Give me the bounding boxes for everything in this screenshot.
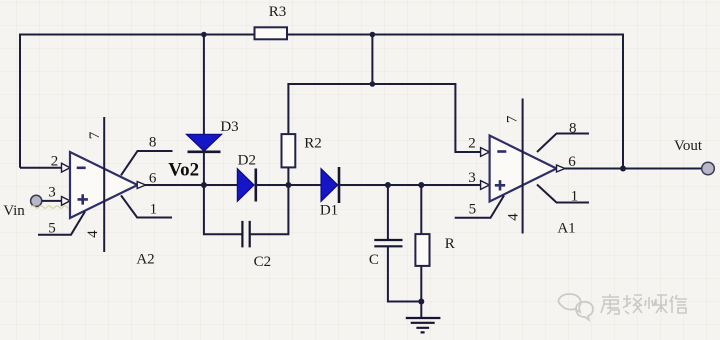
diode D2 — [238, 169, 254, 201]
svg-text:2: 2 — [51, 154, 59, 170]
svg-text:A1: A1 — [557, 221, 575, 237]
svg-text:Vin: Vin — [3, 203, 25, 219]
svg-text:4: 4 — [505, 213, 521, 221]
op-amp A1 power line pins 7/4 — [522, 99, 524, 234]
op-amp A1 triangle — [490, 136, 557, 202]
wire mid net horizontal (R2 top to A1 pin2 corner) — [288, 84, 480, 152]
watermark text 房叔快修 — [601, 294, 687, 314]
resistor R — [415, 234, 429, 266]
resistor R bottom lead — [420, 266, 422, 302]
op-amp A1 pin 5 stub — [455, 196, 504, 218]
svg-text:2: 2 — [468, 136, 476, 152]
terminal Vin — [31, 195, 42, 206]
diode D3 cathode bar — [188, 151, 221, 154]
wire D3 anode from top net — [203, 35, 205, 135]
op-amp A2 triangle — [70, 152, 138, 218]
capacitor C2 plates — [242, 221, 249, 248]
op-amp A2 plus sign — [78, 194, 88, 204]
op-amp A2 pin 8 stub — [121, 151, 173, 175]
node junction dot top wire / D3 branch — [201, 32, 207, 38]
svg-text:5: 5 — [469, 202, 477, 218]
resistor R2 — [282, 134, 296, 167]
svg-text:C: C — [369, 252, 379, 268]
wire A1 output to Vout — [564, 168, 702, 170]
svg-text:R: R — [445, 236, 455, 252]
capacitor C top lead — [387, 185, 389, 240]
pin arrow A2 output pin 6 — [137, 182, 145, 189]
svg-text:D1: D1 — [320, 203, 338, 219]
resistor R3 — [255, 27, 288, 39]
svg-text:A2: A2 — [136, 252, 154, 268]
node junction dot ground — [418, 299, 424, 305]
ERC squiggle under Vin wire — [31, 206, 71, 209]
diode D1 — [321, 169, 337, 201]
op-amp A2 pin 5 stub — [38, 212, 85, 235]
wire top net: left vertical and top horizontal to R3 — [20, 35, 255, 168]
node junction dot R top — [418, 182, 424, 188]
op-amp A2 pin 1 stub — [121, 195, 172, 217]
op-amp A1 minus sign — [497, 150, 506, 153]
wire ground stub — [420, 302, 422, 319]
op-amp A1 plus sign — [495, 180, 505, 190]
wire R2 bottom lead — [287, 167, 289, 185]
capacitor C2 right lead — [250, 185, 289, 234]
resistor R top lead — [420, 185, 422, 234]
pin arrow A1 pin3 — [481, 181, 490, 190]
diode D3 — [187, 135, 221, 151]
op-amp A2 power line pins 7/4 — [103, 117, 105, 252]
node junction dot output — [620, 166, 626, 172]
pin arrow A2 pin3 — [62, 197, 71, 206]
node junction dot top wire / mid branch — [370, 32, 376, 38]
pin arrow A1 pin2 — [481, 148, 490, 157]
wire Vin to A2 pin3 — [42, 200, 62, 202]
node junction dot C top — [385, 182, 391, 188]
svg-text:3: 3 — [468, 170, 476, 186]
svg-text:1: 1 — [571, 189, 579, 205]
op-amp A2 minus sign — [77, 167, 86, 170]
svg-text:7: 7 — [87, 131, 103, 139]
node junction dot mid net — [370, 81, 376, 87]
svg-text:8: 8 — [569, 121, 577, 137]
svg-text:5: 5 — [48, 221, 56, 237]
diode D1 cathode bar — [338, 167, 341, 203]
svg-text:D2: D2 — [238, 153, 256, 169]
wire D2 cathode to node — [256, 184, 321, 186]
wire D1 cathode to A1 pin3 — [339, 184, 481, 186]
wire top horizontal from R3 to right edge, down to output node — [287, 35, 623, 169]
capacitor C bottom lead to ground node — [388, 246, 421, 301]
node Vo2 junction dot — [201, 182, 207, 188]
wire A2 output to D2 anode — [144, 184, 238, 186]
svg-text:8: 8 — [149, 135, 157, 151]
svg-text:Vout: Vout — [674, 138, 703, 154]
pin arrow A2 pin2 — [62, 163, 71, 172]
wire D3 cathode to Vo2 node — [203, 152, 205, 185]
svg-text:D3: D3 — [220, 119, 238, 135]
capacitor C plates — [374, 240, 402, 246]
svg-text:C2: C2 — [254, 254, 272, 270]
op-amp A1 pin 8 stub — [537, 134, 589, 153]
svg-text:7: 7 — [504, 115, 520, 123]
watermark logo — [558, 294, 593, 320]
terminal Vout — [702, 162, 715, 175]
svg-text:Vo2: Vo2 — [168, 160, 199, 181]
svg-text:3: 3 — [48, 185, 56, 201]
wire vertical top net to mid net — [371, 35, 373, 85]
svg-text:1: 1 — [150, 202, 158, 218]
node junction dot R2 bottom — [285, 182, 291, 188]
svg-text:R2: R2 — [304, 135, 322, 151]
svg-text:R3: R3 — [269, 4, 287, 20]
pin arrow A1 output pin 6 — [557, 165, 565, 172]
diode D2 cathode bar — [255, 169, 258, 202]
capacitor C2 left lead — [204, 185, 243, 234]
wire A2 pin2 stub — [20, 167, 62, 169]
svg-text:4: 4 — [85, 230, 101, 238]
op-amp A1 pin 1 stub — [537, 185, 589, 203]
ground symbol — [406, 318, 441, 332]
